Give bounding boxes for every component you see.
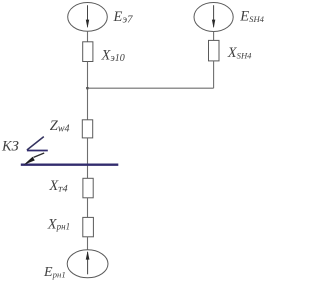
source E_SH4 (ellipse symbol)	[194, 3, 233, 32]
svg-text:Eрн1: Eрн1	[43, 265, 66, 280]
resistor X_рн1	[83, 217, 94, 236]
short-circuit bolt: upper diagonal	[27, 137, 44, 150]
wire: X_т4 to X_рн1	[87, 198, 89, 218]
svg-text:Eэ7: Eэ7	[113, 9, 134, 26]
short-circuit bolt: lower diagonal	[34, 153, 45, 157]
arrow inside E_рн1 (pointing up)	[86, 251, 90, 274]
node: T-junction	[86, 87, 88, 89]
wire: Z_w4 down through fault to X_T4	[87, 138, 89, 178]
svg-text:ESH4: ESH4	[239, 9, 264, 25]
arrow inside E_SH4 (pointing down)	[212, 5, 215, 28]
wire: horizontal connector	[88, 87, 214, 89]
short-circuit bolt: middle bar (blue)	[27, 150, 48, 152]
svg-text:Xэ10: Xэ10	[101, 47, 125, 64]
resistor X_э10	[83, 42, 93, 62]
svg-text:Zw4: Zw4	[50, 118, 70, 135]
svg-text:XSH4: XSH4	[227, 45, 252, 61]
source E_э7 (ellipse symbol)	[68, 3, 108, 32]
svg-text:КЗ: КЗ	[1, 139, 19, 155]
short-circuit bolt: arrowhead	[24, 157, 35, 165]
wire: X_э10 down to Z_w4	[87, 62, 89, 120]
resistor X_т4	[83, 178, 93, 198]
resistor X_SH4	[209, 40, 220, 61]
svg-text:т4: т4	[57, 184, 69, 195]
fault bus line (blue)	[21, 164, 119, 166]
arrow inside E_э7 (pointing down)	[86, 5, 89, 28]
wire: X_рн1 to E_рн1	[87, 237, 89, 250]
wire: E_SH4 to X_SH4	[213, 32, 215, 41]
resistor Z_w4	[82, 120, 92, 138]
wire: X_SH4 down to junction	[213, 61, 215, 88]
svg-text:Xрн1: Xрн1	[47, 216, 70, 232]
wire: E_э7 to X_э10	[87, 31, 89, 42]
source E_рн1 (ellipse symbol)	[67, 250, 108, 278]
